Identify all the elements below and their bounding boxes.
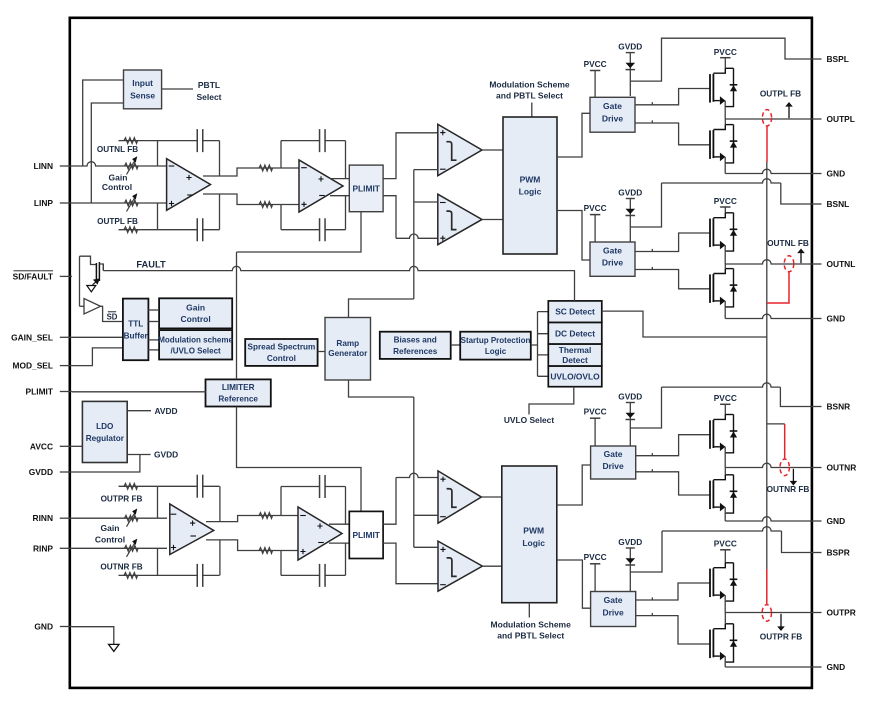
block Gate Drive U8 [590,242,635,276]
wire bus to OUTNR FB [767,423,785,425]
svg-text:GND: GND [827,314,846,324]
svg-text:OUTNL: OUTNL [827,259,856,269]
svg-text:/UVLO Select: /UVLO Select [170,346,221,355]
svg-text:GVDD: GVDD [618,41,642,51]
svg-text:OUTPR FB: OUTPR FB [101,495,143,504]
ground arrow SD [87,286,96,292]
op-amp U2 minus out [319,195,325,197]
svg-text:Gate: Gate [603,101,622,111]
pin GVDD stub [60,471,72,473]
pin OUTPR stub [810,612,822,614]
wire MOD_SEL [72,348,123,366]
block TTL Buffer U10 [123,299,148,361]
svg-text:Startup Protection: Startup Protection [461,336,531,345]
wire PWM-B stub bottom [528,603,530,618]
svg-text:OUTPL: OUTPL [827,114,855,124]
wire PLIMIT-A bottom stub [237,212,362,252]
pin GND stub [810,318,822,320]
wire PLIMIT-B out2 [383,543,438,584]
pin GND stub [810,666,822,668]
node wire LINP to FB bottom [157,203,159,230]
pin OUTPL stub [810,118,822,120]
transistor Q6 high-side R- [709,420,711,449]
op-amp U23 plus in [171,545,176,550]
pin BSNR stub [810,406,822,408]
block LIMITER Reference U21 [206,379,271,406]
block Modulation scheme UVLO Select U12 [159,330,232,359]
transistor Q5 source arrow [93,280,99,285]
svg-text:LDO: LDO [96,422,114,431]
wire Q1 source to OUTPL [724,101,726,119]
wire Q2 source to GND [724,157,726,174]
wire PLIMIT-A out1 [383,133,438,179]
tick GD1 out2 [651,120,653,123]
op-amp U1 plus in [169,201,174,206]
svg-text:PLIMIT: PLIMIT [352,530,380,540]
capacitor C4 top [281,486,346,488]
svg-text:OUTPL FB: OUTPL FB [760,89,801,99]
capacitor C4 bottom [281,574,346,576]
wire OUTNL [725,260,811,264]
pin MOD_SEL stub [60,365,72,367]
red wire OUTNR FB [784,424,786,459]
wire U24 out top [329,523,349,525]
wire GD4 out2 [636,616,710,644]
wire U5 out [482,219,503,221]
svg-text:PLIMIT: PLIMIT [352,183,380,193]
op-amp U24 [298,507,342,560]
capacitor C3 bottom [158,574,220,576]
pin LINP stub [60,202,72,204]
wire U26 out [481,496,501,498]
svg-text:GND: GND [827,516,846,526]
red ellipse OUTPL FB [762,110,771,126]
op-amp U24 plus out [317,523,322,528]
arrow OUTPR FB [780,614,782,628]
pin RINP stub [60,547,72,549]
block SC Detect U17 [548,301,602,323]
svg-text:OUTNR FB: OUTNR FB [100,563,142,572]
comparator U26 [438,471,481,523]
red ellipse OUTNL FB [784,256,794,272]
op-amp U1 [167,159,211,211]
svg-text:PVCC: PVCC [714,196,737,206]
capacitor C3 top [158,485,220,487]
red wire OUTPL FB [766,126,768,162]
svg-text:MOD_SEL: MOD_SEL [13,361,54,371]
svg-text:TTL: TTL [128,319,143,328]
wire LINP [72,202,167,204]
svg-text:LIMITER: LIMITER [222,383,255,392]
wire PLIMIT-B out1 [383,478,396,525]
wire SD to TTL [101,306,123,321]
wire C3 top to out [219,486,221,521]
wire startup to detects [531,312,549,377]
svg-text:PVCC: PVCC [584,59,607,69]
wire U1 out bottom [203,194,299,205]
block Gate Drive U30 [591,592,636,627]
wire mod select stub top [531,103,533,118]
op-amp U23 minus in [171,513,177,515]
wire GD2 out1 [635,233,710,252]
resistor OUTPR FB [119,485,158,487]
wire LINN [72,162,167,166]
wire GD1 out1 [635,89,710,105]
wire BSPL bootstrap [630,38,811,81]
wire Q6 source to OUTNR [724,447,726,468]
svg-text:Spread Spectrum: Spread Spectrum [248,343,316,352]
svg-text:OUTNL FB: OUTNL FB [97,145,138,154]
wire C2 top right [345,141,347,179]
wire Q9 source to GND [724,656,726,667]
wire RINP [72,547,167,549]
tick GD4 out1 [651,597,653,600]
wire U24 out bottom [329,542,349,544]
arrow OUTNR FB [792,469,794,482]
wire C4 bottom right [345,543,347,575]
capacitor C2 top [281,140,346,142]
svg-text:Drive: Drive [602,608,624,618]
transistor Q8 high-side R+ [709,569,711,598]
block Thermal Detect U19 [548,344,602,366]
pin BSNL stub [810,203,822,205]
wire GD1 out2 [635,123,710,145]
wire SD node vertical [79,256,81,306]
svg-text:Modulation Scheme: Modulation Scheme [489,80,570,90]
svg-text:BSPL: BSPL [827,54,849,64]
pin GND stub [810,173,822,175]
node wire FB to RINN [157,486,159,518]
svg-text:Detect: Detect [562,355,588,365]
svg-text:PVCC: PVCC [714,47,737,57]
op-amp U24 minus in [300,515,306,517]
tick GD4 out2 [651,613,653,616]
wire C4 top left [280,487,282,516]
transistor Q4 low-side L- [709,274,711,303]
wire GND3 [725,517,811,521]
wire biases-startup [451,344,461,346]
op-amp U24 plus in [300,549,305,554]
resistor R2b [259,202,273,208]
svg-text:AVDD: AVDD [155,406,178,416]
capacitor C1 bottom [158,229,220,231]
svg-text:OUTNR: OUTNR [827,463,857,473]
svg-text:PWM: PWM [520,174,541,184]
svg-text:Biases and: Biases and [394,336,437,345]
wire C1 top to output [219,141,221,176]
block Gain Control U11 [159,298,232,328]
op-amp U2 plus in [301,202,306,207]
wire GND1 [725,169,811,173]
svg-text:OUTPL FB: OUTPL FB [97,217,138,226]
wire limiter top [236,252,238,379]
svg-text:GVDD: GVDD [154,450,178,460]
block Gate Drive U7 [590,97,635,132]
wire GD3 out1 [636,435,710,456]
svg-text:Ramp: Ramp [336,339,359,348]
block Spread Spectrum Control U13 [245,339,317,366]
wire C2 bottom right [345,196,347,230]
svg-text:Gate: Gate [604,595,623,605]
wire GND2 [725,314,811,318]
wire Q3 source to OUTNL [724,245,726,264]
wire ramp vertical top [413,170,415,299]
op-amp U23 minus out [190,535,196,537]
svg-text:GND: GND [827,169,846,179]
block PWM Logic U28 [502,466,557,603]
svg-text:GAIN_SEL: GAIN_SEL [11,332,53,342]
wire C2 bottom left [280,205,282,230]
pin GND stub [60,626,72,628]
ground symbol [109,644,119,651]
wire ramp top out [349,299,414,318]
svg-text:OUTNR FB: OUTNR FB [767,484,810,494]
transistor Q1 high-side L+ [709,74,711,103]
node wire RINP to FB [157,548,159,575]
block Gate Drive U29 [591,446,636,479]
svg-text:Control: Control [95,535,125,545]
svg-text:SD/FAULT: SD/FAULT [13,271,54,281]
wire C1 bottom to output [219,194,221,230]
pin PLIMIT stub [60,391,72,393]
wire PLIMIT pin [72,391,206,393]
comparator U27 [438,541,482,591]
wire AVCC [72,445,83,447]
svg-text:PLIMIT: PLIMIT [26,387,54,397]
wire PWM-A to GD2 [557,211,590,261]
svg-text:GVDD: GVDD [618,391,642,401]
svg-text:Control: Control [180,314,210,324]
wire ramp to U5 minus [414,201,438,203]
wire TTL out3 [148,339,159,341]
arrow OUTNL FB [800,252,802,263]
wire Q7 source to GND [724,507,726,521]
resistor R2a [259,165,273,171]
svg-text:PVCC: PVCC [714,539,737,549]
wire GD3 out2 [636,472,710,495]
transistor Q2 low-side L+ [709,130,711,159]
pin GND stub [810,520,822,522]
red wire OUTNL FB [767,272,789,303]
wire GAIN_SEL [72,336,123,338]
pin BSPL stub [810,58,822,60]
resistor OUTNL FB [119,140,158,142]
wire BSPR bootstrap [630,531,662,572]
block PLIMIT U3 [349,165,383,212]
wire PWM-B to GD4 [557,560,591,608]
svg-text:Logic: Logic [519,187,542,197]
svg-text:OUTNL FB: OUTNL FB [767,238,809,248]
comparator U5 [438,194,482,245]
svg-text:Thermal: Thermal [559,345,592,355]
comparator U4 [438,124,482,175]
svg-text:Gain: Gain [109,173,128,183]
wire C3 bottom to out [219,540,221,576]
resistor OUTPL FB [119,229,158,231]
wire C2 top left [280,141,282,168]
wire U27 out [482,565,501,567]
wire AVDD stub [127,410,151,412]
pin BSPR stub [810,552,822,554]
wire Q4 drain from OUTNL [724,264,726,269]
svg-text:Gate: Gate [603,245,622,255]
wire Q9 drain from OUTPR [724,613,726,624]
wire input-sense PBTL stub [162,88,193,90]
block PLIMIT U25 [349,511,383,558]
svg-text:Logic: Logic [522,538,545,548]
wire Q8 source to OUTPR [724,595,726,612]
wire ramp to U4 minus [414,169,438,171]
svg-text:AVCC: AVCC [30,441,53,451]
wire TTL out1 [148,309,158,311]
resistor R4a [259,513,273,519]
op-amp U1 plus out [186,175,191,180]
red ellipse OUTNR FB [780,459,789,476]
svg-text:PVCC: PVCC [584,407,607,417]
wire input-sense to LINN [83,80,124,166]
svg-text:Reference: Reference [218,395,258,404]
svg-text:BSNR: BSNR [827,402,851,412]
svg-text:References: References [393,347,438,356]
svg-text:LINN: LINN [33,161,53,171]
wire C4 bottom left [280,551,282,576]
op-amp U2 plus out [318,176,323,181]
wire GND pin bottom-left [72,627,114,645]
wire PWM-B to GD3 [557,465,591,505]
op-amp U23 plus out [190,521,195,526]
svg-text:Modulation scheme: Modulation scheme [158,335,233,344]
wire GVDD pin [72,455,140,473]
pin OUTNL stub [810,263,822,265]
wire C4 top right [345,487,347,525]
variable resistor gain RINN [125,515,138,521]
arrow OUTPL FB [788,106,790,119]
block DC Detect U18 [548,323,602,345]
wire FAULT [103,266,575,270]
red wire OUTPR FB [766,569,768,604]
svg-text:PBTL: PBTL [198,80,220,90]
wire TTL out4 [148,349,159,351]
svg-text:GVDD: GVDD [29,467,53,477]
transistor Q9 low-side R+ [709,630,711,659]
svg-text:Input: Input [132,78,153,88]
wire U2 out top [330,178,349,180]
svg-text:BSNL: BSNL [827,199,850,209]
wire U23 out top [206,516,298,522]
variable resistor gain RINP [125,546,138,552]
svg-text:LINP: LINP [34,198,53,208]
wire feedback bus [766,162,768,569]
svg-text:SC Detect: SC Detect [555,307,595,317]
wire BSNR bootstrap [630,387,661,428]
red ellipse OUTPR FB [762,605,771,622]
wire TTL out2 [148,321,158,323]
svg-text:PVCC: PVCC [584,203,607,213]
op-amp U23 [170,504,214,555]
wire U4 out [482,149,503,151]
tick GD1 out1 [651,102,653,105]
svg-text:Logic: Logic [485,347,507,356]
resistor OUTNR FB [119,574,158,576]
svg-text:and PBTL Select: and PBTL Select [496,91,563,101]
block Ramp Generator U14 [325,318,371,381]
resistor R4b [259,548,273,554]
wire PWM-A to GD1 [557,113,590,157]
op-amp U2 minus in [301,167,307,169]
svg-text:BSPR: BSPR [827,548,850,558]
wire Q2 drain from OUTPL [724,119,726,125]
pin AVCC stub [60,445,72,447]
transistor Q7 low-side R- [709,481,711,510]
svg-text:Control: Control [102,182,132,192]
svg-text:Select: Select [196,92,221,102]
op-amp U2 [299,160,343,212]
wire input-sense to LINP [91,103,123,203]
wire GVDD stub [127,454,150,456]
capacitor C2 bottom [281,229,346,231]
wire BSNL bootstrap [630,183,661,227]
svg-text:Control: Control [267,354,296,363]
svg-text:UVLO/OVLO: UVLO/OVLO [550,371,600,381]
capacitor C1 top [158,140,220,142]
wire FAULT to SC Detect [574,271,576,301]
svg-text:FAULT: FAULT [136,260,166,270]
variable resistor gain LINN [125,163,138,169]
wire OUTPR [725,612,811,614]
wire SC Detect to bus [602,311,767,337]
block Startup Protection Logic U16 [460,332,531,360]
op-amp U1 minus out [187,194,193,196]
op-amp U24 minus out [318,542,324,544]
svg-text:Drive: Drive [602,461,624,471]
block Input Sense [124,70,162,109]
wire OUTNR [725,463,811,467]
svg-text:Gain: Gain [186,303,205,313]
pin SD/FAULT stub [60,275,72,277]
svg-text:Drive: Drive [602,258,624,268]
transistor Q5 fault gate hook [80,256,97,264]
buffer U9 SD [84,299,101,315]
block UVLO OVLO U20 [548,366,602,387]
tick GD2 out2 [651,267,653,270]
wire U1 out top [203,168,299,176]
pin OUTNR stub [810,467,822,469]
node wire FB top to LINN [157,141,159,166]
svg-text:Modulation Scheme: Modulation Scheme [491,620,572,630]
wire U23 out bottom [206,540,298,551]
svg-text:Regulator: Regulator [86,434,125,443]
pin LINN stub [60,165,72,167]
svg-text:OUTPR: OUTPR [827,608,856,618]
transistor Q3 high-side L- [709,219,711,248]
tick GD3 out1 [651,453,653,456]
tick GD2 out1 [651,249,653,252]
svg-text:OUTPR FB: OUTPR FB [760,632,802,642]
svg-text:and PBTL Select: and PBTL Select [497,631,564,641]
svg-text:PWM: PWM [523,526,544,536]
transistor Q5 fault [95,263,97,280]
wire GD2 out2 [635,270,710,289]
wire Q7 drain from OUTNR [724,468,726,475]
svg-text:Gate: Gate [604,449,623,459]
block PWM Logic U6 [503,117,557,254]
block LDO Regulator U22 [82,401,127,462]
wire Q4 source to GND [724,301,726,319]
wire ramp to U27 plus [414,546,438,548]
svg-text:UVLO Select: UVLO Select [504,415,554,425]
wire PLIMIT-A out2 [383,196,396,239]
svg-text:GND: GND [827,662,846,672]
